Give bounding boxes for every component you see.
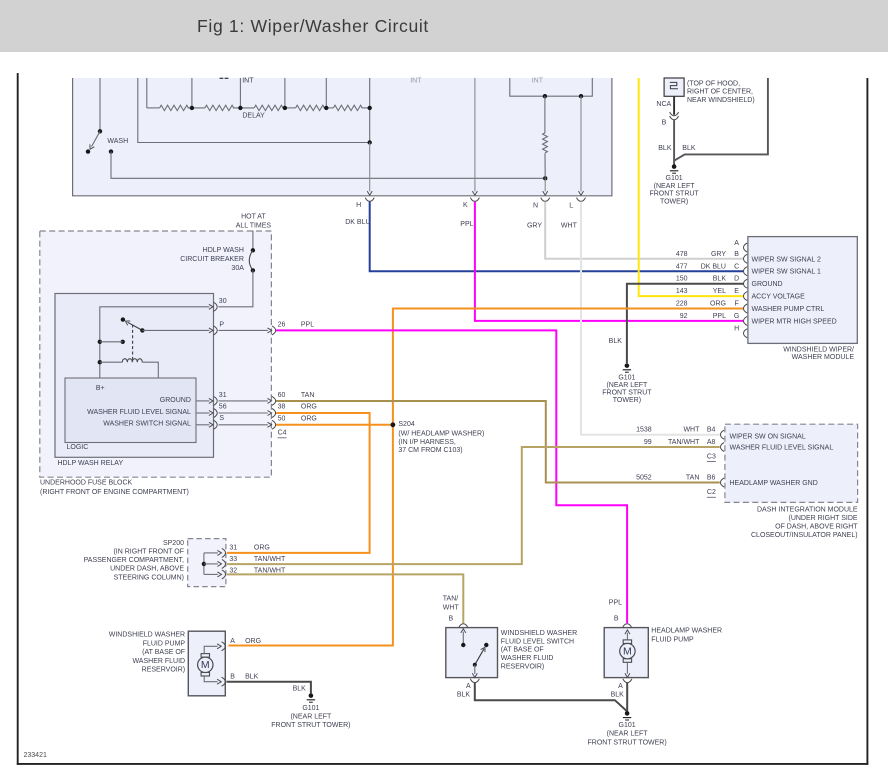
inline connector: [670, 112, 679, 116]
wiper switch assembly box (cut off at top): [73, 78, 612, 196]
relay pin P lead: [142, 329, 209, 331]
svg-text:WIPER SW SIGNAL 1: WIPER SW SIGNAL 1: [752, 269, 821, 276]
svg-text:H: H: [356, 202, 361, 209]
inner box A (delay resistor network): [138, 78, 370, 143]
svg-text:S: S: [219, 415, 224, 422]
svg-text:WHT: WHT: [561, 223, 578, 230]
wire BLK to G101: [673, 120, 675, 165]
svg-text:LOGIC: LOGIC: [67, 444, 89, 451]
svg-text:B: B: [662, 119, 667, 126]
svg-text:G: G: [734, 313, 739, 320]
svg-text:WASHER PUMP CTRL: WASHER PUMP CTRL: [752, 306, 825, 313]
pump pin B lead: [204, 676, 217, 682]
windshield washer fluid level switch box: [446, 628, 498, 678]
svg-text:NCA: NCA: [656, 101, 671, 108]
svg-text:(IN I/P HARNESS,: (IN I/P HARNESS,: [398, 439, 455, 446]
relay N.C. contact row: [98, 340, 102, 344]
svg-text:TAN: TAN: [686, 475, 699, 482]
svg-text:CLOSEOUT/INSULATOR PANEL): CLOSEOUT/INSULATOR PANEL): [751, 532, 858, 539]
DIM pin arcs: [721, 430, 725, 439]
svg-text:YEL: YEL: [713, 288, 726, 295]
svg-text:143: 143: [676, 288, 688, 295]
SP200 internal bus: [203, 553, 205, 575]
svg-text:TAN: TAN: [301, 392, 314, 399]
svg-text:60: 60: [278, 392, 286, 399]
svg-text:PASSENGER COMPARTMENT,: PASSENGER COMPARTMENT,: [84, 557, 184, 564]
svg-text:L: L: [569, 202, 573, 209]
resistor 2: [205, 105, 234, 110]
svg-text:(TOP OF HOOD,: (TOP OF HOOD,: [687, 81, 740, 88]
resistor 1: [160, 105, 189, 110]
svg-text:FRONT STRUT TOWER): FRONT STRUT TOWER): [587, 739, 666, 746]
svg-text:ORG: ORG: [254, 545, 270, 552]
svg-text:A: A: [618, 683, 623, 690]
windshield wiper/washer module box: [748, 237, 857, 344]
svg-text:PPL: PPL: [713, 313, 726, 320]
wire BLK headlamp pump A to G101: [626, 683, 628, 711]
svg-text:150: 150: [676, 276, 688, 283]
svg-text:BLK: BLK: [457, 692, 471, 699]
svg-text:N: N: [533, 202, 538, 209]
svg-text:(UNDER RIGHT SIDE: (UNDER RIGHT SIDE: [788, 515, 857, 522]
svg-text:WINDSHIELD WASHER: WINDSHIELD WASHER: [501, 630, 577, 637]
svg-text:TAN/WHT: TAN/WHT: [668, 439, 700, 446]
svg-text:99: 99: [644, 439, 652, 446]
svg-text:WASHER FLUID LEVEL SIGNAL: WASHER FLUID LEVEL SIGNAL: [87, 409, 191, 416]
svg-text:(AT BASE OF: (AT BASE OF: [501, 647, 544, 654]
resistor 3: [254, 105, 283, 110]
svg-text:TAN/WHT: TAN/WHT: [254, 556, 286, 563]
svg-text:H: H: [734, 325, 739, 332]
svg-text:FRONT STRUT TOWER): FRONT STRUT TOWER): [271, 722, 350, 729]
LOGIC box: [65, 378, 196, 443]
svg-text:BLK: BLK: [713, 276, 727, 283]
svg-text:ACCY VOLTAGE: ACCY VOLTAGE: [752, 294, 806, 301]
svg-text:DASH INTEGRATION MODULE: DASH INTEGRATION MODULE: [757, 506, 858, 513]
wire DK BLU pin H to module C: [370, 202, 744, 272]
svg-text:BLK: BLK: [609, 338, 623, 345]
underhood fuse block (dashed): [40, 231, 272, 477]
pin K lead: [474, 78, 476, 191]
svg-text:(NEAR LEFT: (NEAR LEFT: [290, 714, 332, 721]
svg-text:A: A: [466, 683, 471, 690]
svg-text:INT: INT: [532, 78, 544, 85]
svg-text:B: B: [449, 615, 454, 622]
wire TAN/WHT DIM A8 to SP200 33: [227, 447, 720, 564]
svg-text:(NEAR LEFT: (NEAR LEFT: [654, 183, 696, 190]
svg-text:92: 92: [680, 313, 688, 320]
svg-text:B6: B6: [707, 475, 716, 482]
resistor 4: [296, 105, 325, 110]
svg-text:B: B: [614, 615, 619, 622]
NCA noise suppressor (top of hood): [664, 78, 684, 96]
svg-text:C4: C4: [278, 429, 287, 436]
wire BLK level switch A to G101: [475, 683, 627, 712]
svg-text:M: M: [201, 659, 210, 671]
svg-text:26: 26: [278, 321, 286, 328]
inner box B (INT wiper): [510, 78, 593, 96]
wire ORG relay 38 to SP200 31: [227, 413, 370, 553]
svg-text:PPL: PPL: [301, 321, 314, 328]
svg-text:(NEAR LEFT: (NEAR LEFT: [607, 731, 649, 738]
svg-text:K: K: [463, 202, 468, 209]
svg-text:INT: INT: [242, 78, 254, 85]
svg-text:INT: INT: [410, 78, 422, 85]
level switch pin A exit: [474, 665, 476, 674]
HDLP WASH circuit breaker 30A: [252, 231, 254, 251]
svg-text:WASHER SWITCH SIGNAL: WASHER SWITCH SIGNAL: [103, 420, 191, 427]
wire PPL relay 26 to headlamp washer pump B: [276, 330, 627, 623]
svg-text:TOWER): TOWER): [660, 199, 688, 206]
svg-text:A8: A8: [707, 439, 716, 446]
svg-text:WASHER FLUID LEVEL SIGNAL: WASHER FLUID LEVEL SIGNAL: [730, 445, 834, 452]
svg-text:Fig 1: Wiper/Washer Circuit: Fig 1: Wiper/Washer Circuit: [197, 16, 429, 36]
svg-text:A: A: [230, 638, 235, 645]
svg-text:1538: 1538: [636, 427, 652, 434]
junction dots on box A: [368, 106, 372, 110]
svg-text:HEADLAMP WASHER: HEADLAMP WASHER: [651, 628, 722, 635]
relay actuator dashed link: [132, 325, 134, 360]
resistor 5: [333, 105, 362, 110]
svg-text:BLK: BLK: [658, 145, 672, 152]
svg-text:HDLP WASH: HDLP WASH: [203, 247, 244, 254]
windshield washer fluid pump box: [188, 631, 225, 696]
svg-text:WHT: WHT: [443, 604, 460, 611]
svg-text:WINDSHIELD WASHER: WINDSHIELD WASHER: [109, 632, 185, 639]
svg-text:BLK: BLK: [293, 685, 307, 692]
page frame border: [17, 73, 19, 765]
wire BLK pump B to G101: [226, 682, 311, 694]
svg-text:233421: 233421: [24, 752, 47, 759]
svg-text:RESERVOIR): RESERVOIR): [501, 664, 544, 671]
svg-text:STEERING COLUMN): STEERING COLUMN): [114, 574, 184, 581]
wire YEL accy voltage to module E: [639, 78, 744, 296]
svg-text:NEAR WINDSHIELD): NEAR WINDSHIELD): [687, 97, 755, 104]
wire from WASH contact to pin N: [109, 149, 113, 153]
ground G101 (module): [625, 363, 630, 368]
svg-text:G101: G101: [619, 722, 636, 729]
title header bar: [0, 0, 888, 52]
svg-text:(IN RIGHT FRONT OF: (IN RIGHT FRONT OF: [113, 549, 184, 556]
wire WHT pin L to DIM B4: [581, 202, 720, 435]
second BLK branch from right: [675, 78, 768, 160]
svg-text:CIRCUIT BREAKER: CIRCUIT BREAKER: [180, 256, 244, 263]
wire PPL pin K to module G: [475, 202, 744, 321]
svg-text:WASH: WASH: [107, 138, 128, 145]
svg-text:FLUID PUMP: FLUID PUMP: [651, 636, 694, 643]
headlamp washer fluid pump box: [604, 628, 648, 678]
svg-text:S204: S204: [398, 421, 414, 428]
svg-text:478: 478: [676, 251, 688, 258]
svg-text:UNDERHOOD FUSE BLOCK: UNDERHOOD FUSE BLOCK: [40, 480, 133, 487]
relay internal: pin 30 feed: [100, 307, 210, 378]
relay switch: [121, 317, 125, 321]
module pin arcs: [744, 243, 748, 252]
WASH switch: [99, 78, 101, 131]
svg-text:(W/ HEADLAMP WASHER): (W/ HEADLAMP WASHER): [398, 430, 484, 437]
svg-text:B+: B+: [96, 385, 105, 392]
svg-text:D: D: [734, 276, 739, 283]
svg-text:(AT BASE OF: (AT BASE OF: [142, 649, 185, 656]
svg-text:477: 477: [676, 263, 688, 270]
svg-text:E: E: [734, 288, 739, 295]
HDLP WASH RELAY box: [55, 294, 214, 458]
svg-text:WIPER SW SIGNAL 2: WIPER SW SIGNAL 2: [752, 256, 821, 263]
leads from relay to fuse block edge: [219, 329, 268, 331]
svg-text:ALL TIMES: ALL TIMES: [236, 223, 272, 230]
svg-text:RESERVOIR): RESERVOIR): [142, 667, 185, 674]
svg-text:BLK: BLK: [611, 692, 625, 699]
svg-text:228: 228: [676, 301, 688, 308]
svg-text:TOWER): TOWER): [613, 397, 641, 404]
svg-text:B: B: [230, 674, 235, 681]
svg-text:BLK: BLK: [245, 674, 259, 681]
relay coil: [98, 360, 102, 364]
delay resistor chain bus: [146, 78, 148, 108]
svg-text:G101: G101: [618, 374, 635, 381]
svg-text:UNDER DASH, ABOVE: UNDER DASH, ABOVE: [110, 566, 184, 573]
svg-text:HEADLAMP WASHER GND: HEADLAMP WASHER GND: [730, 480, 818, 487]
svg-text:C: C: [734, 263, 739, 270]
svg-text:GRY: GRY: [711, 251, 726, 258]
svg-text:C3: C3: [707, 453, 716, 460]
ground G101 (headlamp pump): [625, 711, 630, 716]
svg-text:BLK: BLK: [682, 145, 696, 152]
svg-text:FLUID LEVEL SWITCH: FLUID LEVEL SWITCH: [501, 638, 574, 645]
svg-text:SP200: SP200: [163, 540, 184, 547]
svg-text:37 CM FROM C103): 37 CM FROM C103): [398, 447, 462, 454]
cut-off text fragment: [220, 77, 224, 79]
svg-text:P: P: [219, 321, 224, 328]
svg-text:56: 56: [219, 403, 227, 410]
pump motor: [623, 640, 631, 644]
svg-text:PPL: PPL: [460, 221, 473, 228]
dropper wires to resistor bus: [191, 78, 193, 108]
svg-text:RIGHT OF CENTER,: RIGHT OF CENTER,: [687, 89, 753, 96]
svg-text:WHT: WHT: [683, 427, 700, 434]
svg-text:30A: 30A: [231, 265, 244, 272]
svg-text:DELAY: DELAY: [242, 113, 265, 120]
svg-text:32: 32: [229, 567, 237, 574]
wire TAN relay 60 to DIM B6: [276, 401, 720, 483]
svg-text:HOT AT: HOT AT: [241, 214, 266, 221]
ground G101 (washer pump): [309, 693, 314, 698]
svg-text:30: 30: [219, 298, 227, 305]
svg-text:TAN/WHT: TAN/WHT: [254, 567, 286, 574]
wire GRY pin N to module B: [545, 202, 743, 259]
svg-text:FRONT STRUT: FRONT STRUT: [649, 191, 699, 198]
wire TAN/WHT SP200 32 to fluid level switch B: [227, 574, 463, 623]
pump motor: [201, 654, 209, 658]
SP200 splice pack (dashed): [188, 539, 226, 587]
svg-text:(NEAR LEFT: (NEAR LEFT: [606, 382, 648, 389]
dash integration module (dashed): [725, 424, 858, 502]
svg-text:M: M: [623, 646, 632, 658]
splice S204: [391, 422, 396, 427]
svg-text:WASHER FLUID: WASHER FLUID: [132, 658, 185, 665]
svg-text:C2: C2: [707, 488, 716, 495]
svg-text:ORG: ORG: [245, 638, 261, 645]
wire BLK module D to G101: [627, 284, 744, 363]
level switch blade: [484, 643, 488, 647]
svg-text:GROUND: GROUND: [160, 397, 191, 404]
svg-text:WIPER MTR HIGH SPEED: WIPER MTR HIGH SPEED: [752, 318, 837, 325]
svg-text:DK BLU: DK BLU: [345, 219, 370, 226]
svg-text:FRONT STRUT: FRONT STRUT: [602, 390, 652, 397]
svg-text:ORG: ORG: [301, 415, 317, 422]
svg-text:WINDSHIELD WIPER/: WINDSHIELD WIPER/: [783, 347, 854, 354]
svg-text:ORG: ORG: [710, 301, 726, 308]
pump pin A lead: [204, 646, 217, 653]
svg-text:F: F: [734, 301, 738, 308]
connector arcs below switch box: [365, 198, 374, 202]
svg-text:B4: B4: [707, 427, 716, 434]
svg-text:G101: G101: [302, 705, 319, 712]
svg-text:TAN/: TAN/: [443, 595, 458, 602]
svg-text:GRY: GRY: [527, 223, 542, 230]
svg-text:OF DASH, ABOVE RIGHT: OF DASH, ABOVE RIGHT: [775, 523, 858, 530]
svg-text:38: 38: [278, 404, 286, 411]
svg-text:HDLP WASH RELAY: HDLP WASH RELAY: [58, 460, 124, 467]
svg-text:50: 50: [278, 415, 286, 422]
svg-text:(RIGHT FRONT OF ENGINE COMPART: (RIGHT FRONT OF ENGINE COMPARTMENT): [40, 489, 189, 496]
svg-text:GROUND: GROUND: [752, 281, 783, 288]
svg-text:G101: G101: [666, 175, 683, 182]
svg-text:B: B: [734, 251, 739, 258]
svg-text:FLUID PUMP: FLUID PUMP: [143, 640, 186, 647]
pin N lead with resistor: [544, 96, 546, 133]
relay edge connector arcs: [214, 302, 218, 311]
svg-text:31: 31: [229, 545, 237, 552]
svg-text:31: 31: [219, 392, 227, 399]
svg-text:DK BLU: DK BLU: [701, 263, 726, 270]
ground G101 (hood): [672, 164, 677, 169]
pin H lead: [369, 143, 371, 192]
svg-text:33: 33: [229, 556, 237, 563]
wire ORG relay 50 to S204: [276, 424, 393, 426]
svg-text:WASHER FLUID: WASHER FLUID: [501, 655, 554, 662]
svg-text:WASHER MODULE: WASHER MODULE: [792, 354, 855, 361]
wire ORG S204 branch to module F and washer pump: [228, 309, 743, 646]
svg-text:ORG: ORG: [301, 404, 317, 411]
pin L lead: [580, 96, 582, 191]
NCA lead: [673, 96, 675, 115]
svg-text:WIPER SW ON SIGNAL: WIPER SW ON SIGNAL: [730, 433, 806, 440]
svg-text:PPL: PPL: [609, 599, 622, 606]
svg-text:A: A: [734, 240, 739, 247]
svg-text:5052: 5052: [636, 475, 652, 482]
